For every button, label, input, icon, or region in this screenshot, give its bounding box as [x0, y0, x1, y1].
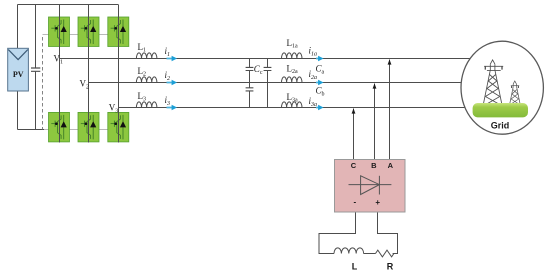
svg-text:A: A — [388, 161, 394, 170]
svg-text:PV: PV — [13, 70, 24, 79]
svg-text:Grid: Grid — [491, 121, 510, 131]
svg-text:+: + — [375, 198, 380, 207]
svg-text:L: L — [352, 262, 358, 272]
svg-text:L2: L2 — [138, 66, 147, 78]
svg-text:i3a: i3a — [309, 96, 318, 108]
svg-text:i3: i3 — [165, 95, 171, 107]
svg-text:V2: V2 — [80, 79, 90, 91]
svg-text:-: - — [353, 198, 356, 207]
svg-text:Cc: Cc — [254, 64, 263, 76]
svg-text:L1: L1 — [138, 42, 147, 54]
svg-text:i1a: i1a — [309, 46, 318, 58]
svg-text:i2: i2 — [165, 70, 171, 82]
svg-text:B: B — [371, 161, 377, 170]
svg-text:L3: L3 — [138, 91, 147, 103]
svg-text:V1: V1 — [54, 54, 64, 66]
svg-text:Cb: Cb — [316, 86, 325, 98]
svg-text:L3a: L3a — [287, 92, 299, 104]
svg-text:L1a: L1a — [287, 38, 299, 50]
svg-text:R: R — [387, 262, 394, 272]
svg-text:i1: i1 — [165, 46, 171, 58]
svg-text:C: C — [351, 161, 357, 170]
svg-text:L2a: L2a — [287, 64, 299, 76]
svg-text:Ca: Ca — [316, 64, 325, 76]
